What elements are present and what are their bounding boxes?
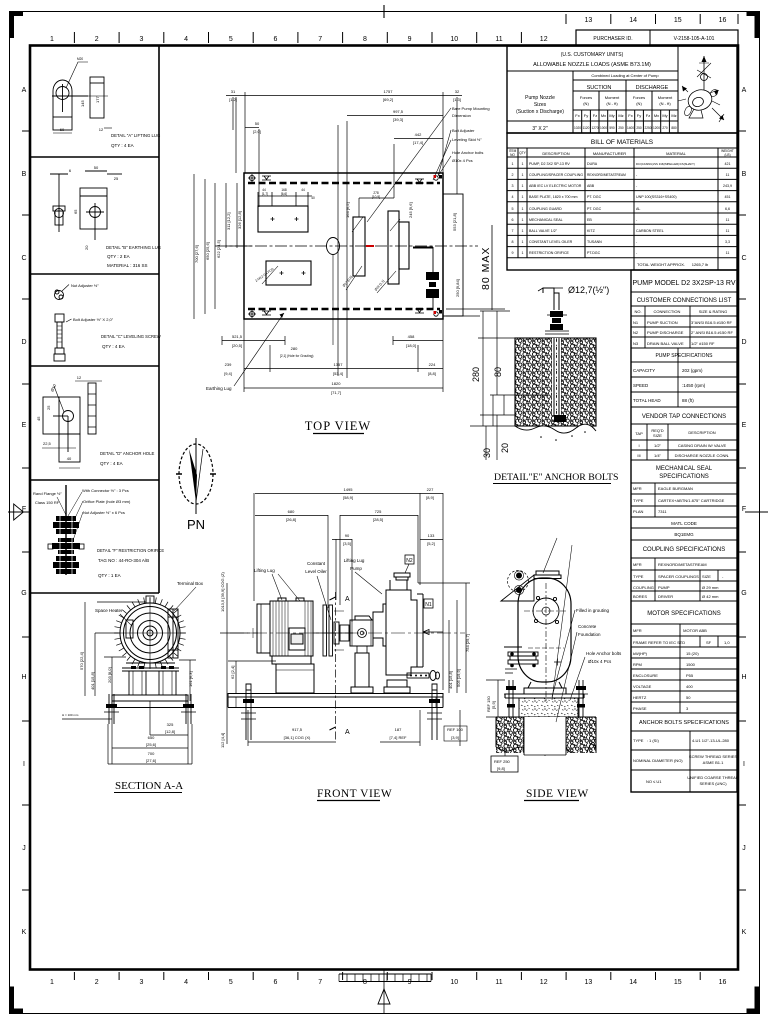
svg-text:FRONT VIEW: FRONT VIEW (317, 788, 392, 800)
svg-text:[71,7]: [71,7] (331, 390, 341, 395)
svg-text:6: 6 (512, 218, 514, 222)
svg-text:997,5: 997,5 (393, 109, 404, 114)
svg-text:E: E (22, 422, 27, 429)
svg-text:Ø 29 mm: Ø 29 mm (702, 585, 719, 590)
svg-text:M20: M20 (77, 57, 83, 61)
svg-text:62 [2,4]: 62 [2,4] (230, 666, 235, 679)
svg-text:Mz: Mz (618, 113, 623, 118)
svg-text:TOP VIEW: TOP VIEW (305, 419, 371, 433)
svg-text:[28,5]: [28,5] (373, 517, 383, 522)
svg-text:N2: N2 (406, 558, 413, 564)
top dimension row (229, 89, 461, 145)
svg-text:QTY: QTY (519, 151, 526, 155)
svg-text:MANUFACTURER: MANUFACTURER (593, 151, 626, 156)
svg-text:CAPACITY: CAPACITY (633, 368, 655, 373)
svg-text:Class 150 RF: Class 150 RF (35, 500, 60, 505)
svg-text:Fy: Fy (637, 113, 641, 118)
svg-text:553 [21,8]: 553 [21,8] (452, 213, 457, 231)
svg-text:Space Heater: Space Heater (95, 608, 123, 613)
svg-text:2: 2 (512, 173, 514, 177)
corner trim marks (9, 11, 23, 38)
svg-text:1120: 1120 (583, 126, 590, 130)
svg-text:880: 880 (671, 126, 677, 130)
svg-text:CUSTOMER CONNECTIONS LIST: CUSTOMER CONNECTIONS LIST (637, 298, 732, 304)
svg-text:DURA: DURA (587, 162, 598, 166)
svg-text:6: 6 (274, 36, 278, 43)
svg-text:164 [6,5]: 164 [6,5] (345, 202, 350, 218)
svg-text:40: 40 (67, 456, 72, 461)
svg-text:TAG NO : 44-RO-304 A/B: TAG NO : 44-RO-304 A/B (98, 558, 149, 563)
svg-text:Nut Adjuster ½": Nut Adjuster ½" (71, 283, 99, 288)
svg-text:SPECIFICATIONS: SPECIFICATIONS (659, 474, 709, 480)
svg-text:15: 15 (674, 979, 682, 986)
svg-text:[69,2]: [69,2] (383, 97, 393, 102)
svg-text:1: 1 (50, 36, 54, 43)
svg-text:PUMP: PUMP (658, 585, 670, 590)
svg-text:9: 9 (408, 979, 412, 986)
svg-text:QTY : 4 EA: QTY : 4 EA (100, 461, 123, 466)
svg-text:650: 650 (148, 735, 155, 740)
detail F restriction orifice (33, 485, 131, 575)
svg-text:CARTEX+ABTN/1.875" CARTRIDGE: CARTEX+ABTN/1.875" CARTRIDGE (658, 498, 725, 503)
left dim stack (194, 174, 252, 319)
svg-text:I: I (23, 761, 25, 768)
svg-text:QTY : 4 EA: QTY : 4 EA (111, 143, 134, 148)
svg-text:EB: EB (587, 218, 592, 222)
svg-text:1/2": 1/2" (654, 443, 662, 448)
support pedestal (524, 682, 566, 694)
bill of materials (507, 133, 737, 270)
svg-text:1265,7 lb: 1265,7 lb (692, 262, 709, 267)
svg-text:BASE PLATE, 1820 x 700 mm: BASE PLATE, 1820 x 700 mm (529, 195, 577, 199)
anchor bolts (241, 684, 442, 740)
svg-text:ENCLOSURE: ENCLOSURE (633, 673, 658, 678)
suction flange left (504, 647, 538, 673)
svg-text:QTY : 4 EA: QTY : 4 EA (102, 344, 125, 349)
svg-text:202 (gpm): 202 (gpm) (682, 368, 703, 373)
right row letters (741, 87, 746, 936)
svg-text:N2: N2 (633, 330, 639, 335)
motor (257, 598, 314, 693)
bearing circles (524, 583, 568, 703)
svg-text:44: 44 (301, 188, 305, 192)
svg-text:401 [15,8]: 401 [15,8] (90, 672, 95, 690)
svg-text:3" X 2": 3" X 2" (532, 126, 547, 132)
svg-text:1: 1 (50, 979, 54, 986)
motor mounting rects (258, 206, 311, 285)
svg-text:Filled in grouting: Filled in grouting (576, 608, 610, 613)
nozzle loads table (507, 46, 737, 133)
flange stacks (52, 516, 80, 574)
svg-text:Sizes: Sizes (534, 102, 547, 108)
nut and washer (550, 311, 563, 330)
svg-text:ALLOWABLE NOZZLE LOADS (ASME B: ALLOWABLE NOZZLE LOADS (ASME B73.1M) (533, 62, 651, 68)
svg-text:1: 1 (522, 173, 524, 177)
svg-text:8: 8 (363, 36, 367, 43)
svg-text:3,3: 3,3 (725, 240, 730, 244)
svg-text:8: 8 (512, 240, 514, 244)
svg-text:245 [9,6]: 245 [9,6] (408, 202, 413, 218)
motor circles (115, 598, 185, 668)
svg-text:16: 16 (719, 979, 727, 986)
svg-text:CASING DRAIN W/ VALVE: CASING DRAIN W/ VALVE (678, 443, 727, 448)
svg-text:[53,4]: [53,4] (333, 371, 343, 376)
svg-text:3"ANSI B16.5 #150 RF: 3"ANSI B16.5 #150 RF (691, 320, 733, 325)
svg-text:458: 458 (408, 334, 415, 339)
80 MAX vertical dim (491, 225, 493, 310)
svg-text:7: 7 (318, 979, 322, 986)
svg-text:65: 65 (73, 209, 78, 214)
detail B earthing lug (50, 165, 122, 250)
svg-text:(N - ft): (N - ft) (659, 101, 671, 106)
svg-text::1450 (rpm): :1450 (rpm) (682, 383, 706, 388)
svg-text:11: 11 (726, 229, 730, 233)
svg-text:TYPE: TYPE (633, 574, 644, 579)
svg-text:SCREW THREAD SERIES: SCREW THREAD SERIES (689, 754, 737, 759)
svg-text:[17,4]: [17,4] (413, 140, 423, 145)
bottom center scale bar and arrow (339, 970, 431, 1013)
svg-text:1: 1 (522, 184, 524, 188)
svg-text:11: 11 (726, 173, 730, 177)
anchor symbols on dashed lines (248, 174, 438, 318)
svg-text:[8,8]: [8,8] (428, 371, 436, 376)
svg-text:Fz: Fz (593, 113, 597, 118)
bolt inside concrete (554, 338, 566, 422)
svg-text:[39,3]: [39,3] (393, 117, 403, 122)
svg-text:DETAIL "F" RESTRICTION ORIFICE: DETAIL "F" RESTRICTION ORIFICE (97, 548, 164, 553)
svg-text:325: 325 (167, 722, 174, 727)
svg-text:NO.: NO. (634, 309, 641, 314)
cooling ribs (114, 597, 186, 669)
svg-text:(U.S. CUSTOMARY UNITS): (U.S. CUSTOMARY UNITS) (561, 52, 624, 58)
svg-text:DETAIL "D" ANCHOR HOLE: DETAIL "D" ANCHOR HOLE (100, 451, 155, 456)
svg-text:UNIFIED COARSE THREAD: UNIFIED COARSE THREAD (687, 775, 739, 780)
discharge flange (534, 571, 561, 579)
svg-text:1: 1 (512, 162, 514, 166)
svg-text:1: 1 (522, 218, 524, 222)
svg-text:Mx: Mx (654, 113, 659, 118)
REF 250 box (491, 756, 518, 772)
svg-text:14: 14 (629, 979, 637, 986)
svg-text:PT. DGC: PT. DGC (587, 207, 602, 211)
svg-text:Mz: Mz (671, 113, 676, 118)
svg-text:[2,0]: [2,0] (253, 129, 261, 134)
svg-text:Forces: Forces (580, 95, 592, 100)
svg-text:[12,8]: [12,8] (165, 729, 175, 734)
detail D anchor hole (36, 375, 102, 468)
floor line (62, 718, 112, 720)
pump body (518, 578, 571, 682)
svg-text:12: 12 (99, 127, 104, 132)
svg-text:QTY : 1 EA: QTY : 1 EA (98, 573, 121, 578)
svg-text:J: J (742, 845, 746, 852)
svg-text:3: 3 (139, 979, 143, 986)
svg-text:5: 5 (229, 979, 233, 986)
svg-text:Hole Anchor bolts: Hole Anchor bolts (452, 150, 483, 155)
svg-text:[25,6]: [25,6] (146, 742, 156, 747)
svg-text:50: 50 (255, 121, 260, 126)
svg-text:COUPLING GUARD: COUPLING GUARD (529, 207, 562, 211)
svg-text:1400: 1400 (627, 126, 634, 130)
svg-text:250 [9,84]: 250 [9,84] (455, 279, 460, 297)
svg-text:PN: PN (187, 517, 205, 532)
svg-text:B: B (22, 171, 27, 178)
svg-text:REF 250: REF 250 (494, 759, 511, 764)
purchaser id box (576, 30, 738, 46)
svg-text:1: 1 (522, 162, 524, 166)
svg-text:DESCRIPTION: DESCRIPTION (542, 151, 569, 156)
svg-text:Terminal Box: Terminal Box (177, 581, 204, 586)
svg-text:1357: 1357 (334, 362, 344, 367)
svg-text:AL: AL (636, 207, 640, 211)
svg-text:1000: 1000 (600, 126, 607, 130)
svg-text:31: 31 (231, 89, 236, 94)
svg-text:Fx: Fx (628, 113, 632, 118)
svg-text:F: F (742, 506, 746, 513)
svg-text:7311: 7311 (658, 509, 667, 514)
pump isometric sketch (678, 56, 724, 122)
svg-text:G: G (21, 590, 26, 597)
svg-text:60: 60 (60, 127, 65, 132)
svg-text:PUMP MODEL D2 3X2SP-13 RV: PUMP MODEL D2 3X2SP-13 RV (633, 280, 736, 287)
svg-text:(LB): (LB) (724, 153, 730, 157)
dims (79, 652, 193, 690)
svg-text:Dimension: Dimension (452, 113, 471, 118)
svg-text:1500: 1500 (686, 662, 696, 667)
baseplate (112, 695, 188, 708)
svg-text:[6,6]: [6,6] (281, 192, 287, 196)
bottom ruler numbers (50, 979, 726, 986)
svg-text:PT. DGC: PT. DGC (587, 195, 602, 199)
svg-text:NO: NO (510, 153, 515, 157)
svg-text:PHASE: PHASE (633, 706, 647, 711)
svg-text:40: 40 (311, 196, 315, 200)
svg-text:MATL CODE: MATL CODE (671, 521, 697, 526)
svg-text:TAP: TAP (635, 431, 643, 436)
svg-text:521,5: 521,5 (232, 334, 243, 339)
svg-text:227: 227 (427, 487, 434, 492)
svg-text:PUMP SUCTION: PUMP SUCTION (647, 320, 678, 325)
svg-text:13: 13 (585, 979, 593, 986)
svg-text:10: 10 (450, 36, 458, 43)
svg-text:590: 590 (609, 126, 615, 130)
motor feet and pedestals (122, 663, 179, 695)
top ruler numbers 1-12 (50, 36, 548, 43)
svg-text:11: 11 (495, 36, 502, 43)
grout (519, 698, 578, 717)
svg-text:700: 700 (148, 751, 155, 756)
svg-text:1/4": 1/4" (654, 453, 662, 458)
drain valve assembly (432, 247, 434, 272)
svg-text:133: 133 (428, 533, 435, 538)
bottom dims (284, 727, 464, 740)
svg-text:CONSTANT LEVEL OILER: CONSTANT LEVEL OILER (529, 240, 573, 244)
baseplate (505, 694, 584, 698)
svg-text:MATERIAL : 316 SS: MATERIAL : 316 SS (107, 263, 148, 268)
svg-text:[9,4]: [9,4] (224, 371, 232, 376)
svg-text:CARBON STEEL: CARBON STEEL (636, 229, 664, 233)
svg-text:Lifting Lug: Lifting Lug (254, 568, 275, 573)
extension verticals (235, 97, 237, 173)
svg-text:45: 45 (36, 416, 41, 421)
pump mounting rects (353, 211, 409, 284)
svg-text:Ø10x 4 Pcs: Ø10x 4 Pcs (588, 659, 612, 664)
svg-text:BQ1EMG: BQ1EMG (674, 532, 694, 537)
mounting bracket (501, 571, 534, 602)
svg-text:F: F (22, 506, 26, 513)
svg-text:REXNORD/METASTREAM: REXNORD/METASTREAM (658, 562, 707, 567)
svg-text:I: I (743, 761, 745, 768)
svg-text:1/2" #150 RF: 1/2" #150 RF (691, 341, 715, 346)
svg-text:SIDE VIEW: SIDE VIEW (526, 788, 589, 800)
svg-text:3: 3 (512, 184, 514, 188)
svg-text:MATERIAL: MATERIAL (666, 151, 686, 156)
svg-text:B: B (742, 171, 747, 178)
svg-text:ABB IEC LV ELECTRIC MOTOR: ABB IEC LV ELECTRIC MOTOR (529, 184, 582, 188)
top lug (146, 596, 154, 603)
svg-text:Pump: Pump (350, 566, 362, 571)
svg-text:1: 1 (522, 229, 524, 233)
svg-text:250: 250 (636, 126, 642, 130)
svg-text:MECHANICAL SEAL: MECHANICAL SEAL (656, 466, 713, 472)
svg-text:V-2158-105-A-101: V-2158-105-A-101 (674, 36, 715, 42)
svg-text:1,0: 1,0 (724, 640, 730, 645)
svg-text:With Connector ½" : 3 Pcs: With Connector ½" : 3 Pcs (82, 488, 129, 493)
svg-text:N1: N1 (633, 320, 639, 325)
svg-text:12: 12 (77, 375, 82, 380)
svg-text:NO ≤ U1: NO ≤ U1 (646, 779, 662, 784)
svg-text:22,5: 22,5 (43, 441, 52, 446)
svg-text:11: 11 (726, 251, 730, 255)
centerline (215, 245, 478, 247)
left row letters (21, 87, 26, 936)
top ruler numbers 13-16 above purchaser box (585, 17, 727, 24)
svg-text:[20,5]: [20,5] (232, 343, 242, 348)
svg-text:COUPLING SPECIFICATIONS: COUPLING SPECIFICATIONS (643, 547, 726, 553)
space heater box (126, 620, 133, 638)
svg-text:DETAIL "A" LIFTING LUG: DETAIL "A" LIFTING LUG (111, 133, 161, 138)
svg-text:ANCHOR BOLTS SPECIFICATIONS: ANCHOR BOLTS SPECIFICATIONS (639, 720, 729, 726)
svg-text:C: C (21, 255, 26, 262)
svg-text:N3: N3 (633, 341, 639, 346)
svg-text:I: I (638, 443, 639, 448)
svg-text:DRAIN BALL VALVE: DRAIN BALL VALVE (647, 341, 684, 346)
svg-text:421: 421 (725, 162, 731, 166)
top ruler ticks (74, 32, 521, 43)
svg-text:442: 442 (415, 132, 422, 137)
svg-text:25: 25 (46, 405, 51, 410)
svg-text:(N): (N) (636, 101, 642, 106)
svg-text:A: A (742, 87, 747, 94)
svg-text:187: 187 (395, 727, 402, 732)
svg-text:P55: P55 (686, 673, 694, 678)
bolt top hook (543, 288, 567, 315)
svg-text:10: 10 (450, 979, 458, 986)
svg-text:SPACER COUPLINGS: SPACER COUPLINGS (658, 574, 699, 579)
svg-text:50: 50 (94, 165, 99, 170)
svg-text:(N - ft): (N - ft) (606, 101, 618, 106)
svg-text:RPM: RPM (633, 662, 642, 667)
svg-text:MFR: MFR (633, 562, 642, 567)
svg-text:BILL OF MATERIALS: BILL OF MATERIALS (591, 139, 654, 146)
svg-text:DISCHARGE NOZZLE CONN.: DISCHARGE NOZZLE CONN. (675, 453, 730, 458)
anchor bolts (504, 680, 588, 717)
svg-text:280: 280 (291, 346, 298, 351)
svg-text:H: H (741, 674, 746, 681)
svg-text:15 (20): 15 (20) (686, 651, 699, 656)
svg-text:PT.DGC: PT.DGC (587, 251, 601, 255)
svg-text:QTY : 2 EA: QTY : 2 EA (107, 254, 130, 259)
svg-text:400: 400 (686, 684, 693, 689)
svg-text:D: D (21, 339, 26, 346)
svg-text:DRIVER: DRIVER (658, 594, 673, 599)
svg-text:700 [27,6]: 700 [27,6] (194, 245, 199, 263)
svg-text:[27,6]: [27,6] (146, 758, 156, 763)
svg-text:MOTOR SPECIFICATIONS: MOTOR SPECIFICATIONS (647, 611, 720, 617)
svg-text:COUPLING/SPACER COUPLING: COUPLING/SPACER COUPLING (529, 173, 583, 177)
svg-text:A: A (345, 729, 350, 736)
svg-text:14: 14 (629, 17, 637, 24)
svg-text:MOTOR ABB: MOTOR ABB (683, 628, 707, 633)
svg-text:[58,9]: [58,9] (343, 495, 353, 500)
svg-text:112 [4,4]: 112 [4,4] (220, 733, 225, 748)
svg-text:Bolt Adjuster ½" X 2,0": Bolt Adjuster ½" X 2,0" (73, 317, 114, 322)
svg-text:280: 280 (471, 367, 481, 382)
svg-text:H: H (21, 674, 26, 681)
svg-text:Moment: Moment (605, 95, 620, 100)
svg-text:Bolt Adjuster: Bolt Adjuster (452, 128, 475, 133)
svg-text:6,6: 6,6 (725, 207, 730, 211)
svg-text:SECTION A-A: SECTION A-A (115, 780, 183, 792)
svg-text:[8,9]: [8,9] (426, 495, 434, 500)
terminal box (168, 609, 178, 658)
svg-text:REF 100: REF 100 (447, 727, 464, 732)
baseplate (244, 173, 443, 319)
svg-text:20: 20 (84, 245, 89, 250)
svg-text:4: 4 (512, 195, 514, 199)
svg-text:PUMP SPECIFICATIONS: PUMP SPECIFICATIONS (655, 353, 713, 359)
svg-text:DCI(CASING)/SS 316(IMPELLER)/C: DCI(CASING)/SS 316(IMPELLER)/CS(SHAFT) (636, 162, 695, 166)
svg-text:TYPE: TYPE (633, 498, 644, 503)
svg-text:Ø 42 mm: Ø 42 mm (702, 594, 719, 599)
svg-text:NOMINAL DIAMETER (NO): NOMINAL DIAMETER (NO) (633, 758, 683, 763)
svg-text:[26,8]: [26,8] (286, 517, 296, 522)
svg-text:[36,1] COG (X): [36,1] COG (X) (284, 735, 311, 740)
svg-text:SUCTION: SUCTION (587, 85, 612, 91)
svg-text:KITZ: KITZ (587, 229, 596, 233)
svg-text:DESCRIPTION: DESCRIPTION (688, 430, 715, 435)
svg-text:E: E (742, 422, 747, 429)
svg-text:Orifice Plate (hole Ø3 mm): Orifice Plate (hole Ø3 mm) (83, 499, 131, 504)
svg-text:90: 90 (345, 533, 350, 538)
svg-text:1: 1 (522, 207, 524, 211)
svg-text:J: J (22, 845, 26, 852)
svg-text:311 [12,2]: 311 [12,2] (226, 213, 231, 231)
top dims (286, 487, 435, 546)
svg-text:1: 1 (522, 251, 524, 255)
svg-text:1200: 1200 (653, 126, 660, 130)
svg-text:[5,2]: [5,2] (427, 541, 435, 546)
concrete block (515, 338, 596, 445)
svg-text:[3,5]: [3,5] (343, 541, 351, 546)
svg-text:3: 3 (139, 36, 143, 43)
suction nozzle box right (443, 194, 463, 316)
svg-text:Combined Loading at Center of: Combined Loading at Center of Pump (591, 73, 659, 78)
svg-text:80 MAX: 80 MAX (480, 247, 492, 290)
svg-text:80: 80 (493, 367, 503, 377)
svg-text:MFR: MFR (633, 628, 642, 633)
svg-text:Fx: Fx (575, 113, 579, 118)
